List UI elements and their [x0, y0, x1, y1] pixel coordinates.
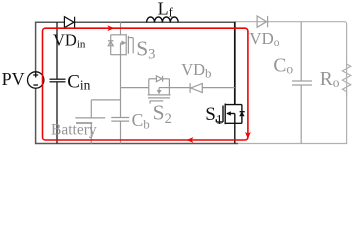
resistor R_o (gray zigzag) [342, 64, 350, 96]
red arrow down (right side) [245, 132, 251, 139]
node: S1 drain black riser from top rail [234, 22, 236, 105]
diode VD_in [64, 17, 74, 28]
MOSFET S2 (gray, horizontal) [121, 76, 171, 104]
MOSFET S1 (black) [216, 104, 244, 144]
wire: S3 source down to S2/C_b junction [120, 55, 122, 118]
wire: gray top rail right section (to VD_o, R_o) [235, 22, 347, 144]
svg-text:PV: PV [2, 69, 25, 89]
inductor L_f [147, 17, 179, 22]
battery (gray) [75, 100, 120, 144]
S3 arrow [122, 40, 126, 45]
svg-text:Battery: Battery [51, 122, 97, 139]
wire: dark bottom rail [35, 143, 238, 145]
red arrow left (bottom) [186, 137, 193, 143]
PV source U-pv [28, 72, 44, 88]
S1 arrow [226, 111, 231, 115]
diode VD_o (gray) [257, 16, 268, 27]
red current loop [43, 28, 248, 140]
diode VD_b (gray, pointing left) [169, 83, 234, 93]
capacitor C_in [50, 22, 66, 143]
wire: dark top rail [35, 21, 235, 23]
wire: gray bottom rail right section [238, 143, 347, 145]
capacitor C_b (gray) [111, 118, 129, 144]
capacitor C_o (gray) [292, 22, 312, 144]
S1 body diode solid triangle [240, 112, 244, 116]
wire: dark outer loop left vertical [35, 22, 37, 143]
S2 arrow [157, 90, 162, 94]
MOSFET S3 (gray) [108, 22, 133, 55]
red arrow right (top rail) [107, 25, 114, 31]
